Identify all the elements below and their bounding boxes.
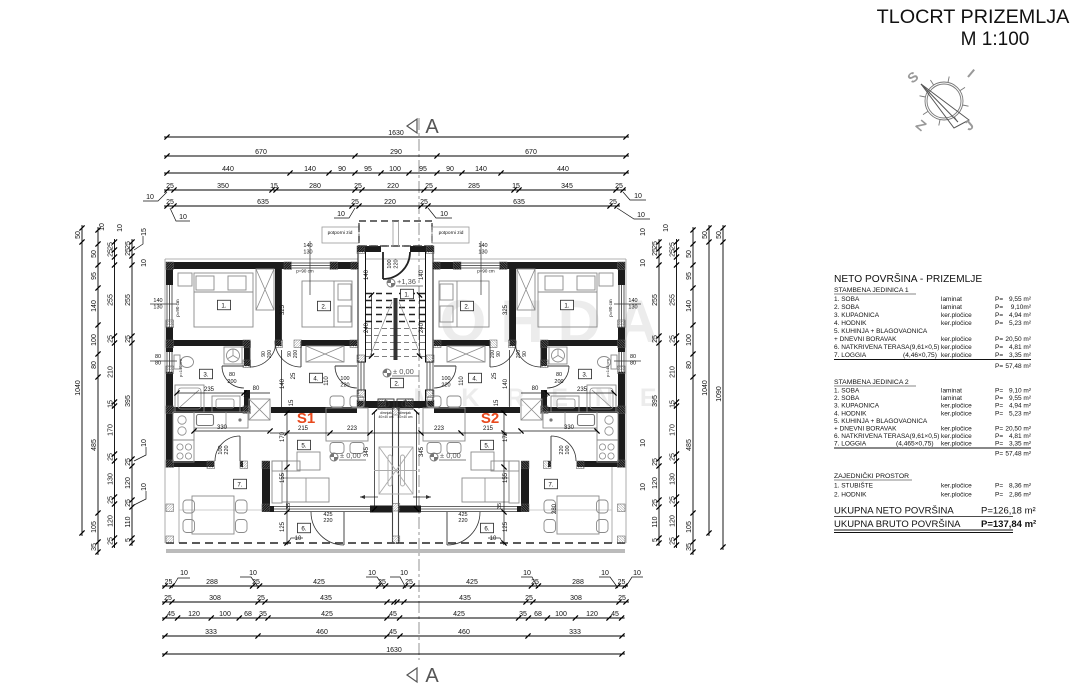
svg-text:S2: S2 xyxy=(481,410,499,427)
svg-text:ker.pločice: ker.pločice xyxy=(941,433,972,440)
svg-text:240: 240 xyxy=(364,322,370,333)
svg-text:280: 280 xyxy=(552,503,558,514)
room label 2. bedroom xyxy=(318,301,331,311)
svg-text:220: 220 xyxy=(458,518,467,524)
svg-text:25: 25 xyxy=(618,579,626,586)
svg-text:10: 10 xyxy=(141,483,148,491)
door slide arrow xyxy=(413,496,431,498)
svg-text:255: 255 xyxy=(107,294,114,306)
svg-text:ker.pločice: ker.pločice xyxy=(941,403,972,410)
terrace edge xyxy=(178,467,180,543)
svg-text:25: 25 xyxy=(107,242,114,250)
svg-text:170: 170 xyxy=(503,431,509,442)
svg-text:25: 25 xyxy=(669,249,676,257)
svg-text:210: 210 xyxy=(669,366,676,378)
wall junction hatches xyxy=(618,262,626,270)
svg-text:5: 5 xyxy=(125,538,132,542)
svg-text:50: 50 xyxy=(75,231,82,239)
svg-text:5.: 5. xyxy=(484,442,489,449)
svg-text:45: 45 xyxy=(389,611,397,618)
svg-text:25: 25 xyxy=(125,499,132,507)
svg-text:200: 200 xyxy=(227,379,236,385)
room label 7. terrace xyxy=(545,479,558,489)
terrace table + chairs xyxy=(557,496,599,534)
dimension chain left col C xyxy=(107,239,117,548)
svg-text:2. HODNIK: 2. HODNIK xyxy=(834,492,867,499)
svg-text:7.: 7. xyxy=(548,481,553,488)
svg-text:170: 170 xyxy=(669,424,676,436)
svg-text:25: 25 xyxy=(354,183,362,190)
terrace dashed edge bottom xyxy=(395,542,625,544)
svg-text:100: 100 xyxy=(91,334,98,346)
svg-text:100: 100 xyxy=(441,376,450,382)
svg-text:P=: P= xyxy=(995,433,1003,440)
nightstand xyxy=(178,273,192,286)
wall center party xyxy=(392,408,394,543)
svg-text:670: 670 xyxy=(525,149,537,156)
svg-text:1040: 1040 xyxy=(702,380,709,396)
svg-text:P=: P= xyxy=(995,363,1003,370)
svg-text:25: 25 xyxy=(609,199,617,206)
svg-text:210: 210 xyxy=(107,366,114,378)
svg-text:10: 10 xyxy=(400,570,408,577)
svg-text:100: 100 xyxy=(565,445,571,454)
svg-text:20,50 m²: 20,50 m² xyxy=(1005,426,1031,433)
svg-text:155: 155 xyxy=(280,472,286,483)
svg-text:395: 395 xyxy=(125,395,132,407)
dimension chain top 1630 xyxy=(164,130,629,140)
svg-text:25: 25 xyxy=(125,248,132,256)
svg-text:6. NATKRIVENA TERASA(9,61×0,5): 6. NATKRIVENA TERASA(9,61×0,5) xyxy=(834,344,939,351)
interior dim living vertical xyxy=(286,410,288,543)
svg-text:10: 10 xyxy=(337,211,345,218)
svg-text:90: 90 xyxy=(446,166,454,173)
room label 1. bedroom xyxy=(561,300,574,310)
interior dim bedroom2 325 xyxy=(509,269,511,340)
svg-text:25: 25 xyxy=(405,579,413,586)
svg-text:25: 25 xyxy=(652,248,659,256)
staircase center rail xyxy=(394,298,398,360)
svg-text:125: 125 xyxy=(503,521,509,532)
dimension chain bottom 1630 xyxy=(162,647,625,657)
svg-text:140: 140 xyxy=(478,243,487,249)
svg-text:4,81 m²: 4,81 m² xyxy=(1009,433,1032,440)
svg-text:325: 325 xyxy=(503,304,509,315)
svg-text:220: 220 xyxy=(224,445,230,454)
svg-text:1040: 1040 xyxy=(75,380,82,396)
dimension chain right col B' xyxy=(686,227,696,555)
svg-text:P=: P= xyxy=(995,312,1003,319)
svg-text:9,55 m²: 9,55 m² xyxy=(1009,296,1032,303)
svg-text:635: 635 xyxy=(257,199,269,206)
svg-text:15: 15 xyxy=(494,399,500,406)
svg-text:170: 170 xyxy=(107,424,114,436)
bed room 1 xyxy=(538,273,597,327)
svg-text:200: 200 xyxy=(490,350,496,359)
svg-text:3,35 m²: 3,35 m² xyxy=(1009,352,1032,359)
interior dim hall 140 xyxy=(281,350,283,407)
svg-text:10: 10 xyxy=(146,194,154,201)
svg-text:25: 25 xyxy=(669,496,676,504)
dimension chain bottom 45..45 xyxy=(162,611,625,621)
svg-text:25: 25 xyxy=(669,242,676,250)
svg-text:3. KUPAONICA: 3. KUPAONICA xyxy=(834,312,880,319)
svg-text:280: 280 xyxy=(309,183,321,190)
interior dim kitchen 330 xyxy=(194,430,270,432)
svg-text:15: 15 xyxy=(270,183,278,190)
dimension chain top 635/220/635 xyxy=(164,199,620,209)
svg-text:25: 25 xyxy=(125,458,132,466)
svg-text:P=: P= xyxy=(995,403,1003,410)
svg-text:4. HODNIK: 4. HODNIK xyxy=(834,410,867,417)
svg-text:25: 25 xyxy=(669,335,676,343)
svg-text:95: 95 xyxy=(91,272,98,280)
svg-text:10: 10 xyxy=(523,570,531,577)
svg-text:10: 10 xyxy=(640,259,647,267)
svg-text:P=: P= xyxy=(995,483,1003,490)
svg-text:220: 220 xyxy=(384,199,396,206)
svg-text:ker.pločice: ker.pločice xyxy=(941,441,972,448)
svg-text:10: 10 xyxy=(99,223,106,231)
svg-text:425: 425 xyxy=(321,611,333,618)
svg-text:± 0,00: ± 0,00 xyxy=(393,367,414,376)
wall porch front xyxy=(410,246,434,252)
svg-text:50: 50 xyxy=(91,250,98,258)
dimension chain top 440..440 xyxy=(164,166,629,176)
closet niche kitchen xyxy=(249,399,270,420)
svg-text:35: 35 xyxy=(259,611,267,618)
window left (bathroom) xyxy=(166,352,168,372)
svg-text:25: 25 xyxy=(107,453,114,461)
svg-text:1. SOBA: 1. SOBA xyxy=(834,296,860,303)
wall left xyxy=(166,262,173,285)
svg-text:UKUPNA BRUTO POVRŠINA: UKUPNA BRUTO POVRŠINA xyxy=(834,519,961,530)
washing machine xyxy=(549,347,567,364)
svg-text:90: 90 xyxy=(338,166,346,173)
svg-text:1090: 1090 xyxy=(716,386,723,402)
svg-text:1.: 1. xyxy=(404,291,409,298)
svg-text:68: 68 xyxy=(534,611,542,618)
dimension chain top 25..345 xyxy=(164,183,626,193)
svg-text:10: 10 xyxy=(490,536,497,542)
window top (bedroom 2) xyxy=(291,262,330,264)
wall terrace divider xyxy=(262,461,270,512)
wall porch front xyxy=(357,246,381,252)
svg-text:2.: 2. xyxy=(464,303,469,310)
svg-text:50: 50 xyxy=(702,231,709,239)
svg-text:5,23 m²: 5,23 m² xyxy=(1009,410,1032,417)
svg-text:3.: 3. xyxy=(203,371,208,378)
wall living bottom + glazing xyxy=(517,506,529,512)
svg-text:140: 140 xyxy=(303,243,312,249)
svg-text:10: 10 xyxy=(663,224,670,232)
svg-text:15: 15 xyxy=(107,400,114,408)
window left (bedroom 1) xyxy=(623,285,625,327)
wall bedroom divider xyxy=(275,269,282,340)
svg-text:10: 10 xyxy=(640,228,647,236)
kitchen counter left + hob xyxy=(597,412,618,440)
svg-text:285: 285 xyxy=(468,183,480,190)
svg-text:4,81 m²: 4,81 m² xyxy=(1009,344,1032,351)
svg-text:220: 220 xyxy=(559,445,565,454)
elevation marker +1,36 (porch) xyxy=(387,279,395,287)
svg-text:6.: 6. xyxy=(484,525,489,532)
door kitchen-terrace xyxy=(239,436,241,461)
coffee table xyxy=(471,452,494,470)
svg-text:130: 130 xyxy=(478,250,487,256)
sofa xyxy=(509,461,519,503)
svg-text:200: 200 xyxy=(554,379,563,385)
svg-text:25: 25 xyxy=(291,372,297,379)
svg-text:90: 90 xyxy=(496,351,502,357)
svg-text:10: 10 xyxy=(634,193,642,200)
svg-text:p=90 cm: p=90 cm xyxy=(175,299,180,317)
toilet xyxy=(611,355,617,369)
staircase treads xyxy=(395,293,425,295)
svg-text:95: 95 xyxy=(419,166,427,173)
dining table xyxy=(326,408,368,441)
dimension chain right col D' xyxy=(652,239,662,546)
interior dim living 345 xyxy=(416,412,418,509)
svg-text:130: 130 xyxy=(669,473,676,485)
svg-text:120: 120 xyxy=(188,611,200,618)
wall top xyxy=(166,262,291,269)
svg-text:15: 15 xyxy=(289,399,295,406)
compass rose xyxy=(920,77,969,126)
svg-text:330: 330 xyxy=(217,425,228,431)
svg-text:ZAJEDNIČKI PROSTOR: ZAJEDNIČKI PROSTOR xyxy=(834,471,909,480)
svg-text:15: 15 xyxy=(141,228,148,236)
wall bathroom right xyxy=(541,346,547,366)
svg-text:25: 25 xyxy=(652,335,659,343)
svg-text:25: 25 xyxy=(257,595,265,602)
outer envelope line xyxy=(164,259,166,543)
wall kitchen/terrace xyxy=(577,461,618,467)
svg-text:130: 130 xyxy=(303,250,312,256)
svg-text:425: 425 xyxy=(453,611,465,618)
dimension chain left 50/1040 xyxy=(75,225,85,536)
window stair (100/220) xyxy=(432,362,434,390)
svg-text:10: 10 xyxy=(249,570,257,577)
terrace edge xyxy=(611,467,613,543)
wall stair shaft xyxy=(426,246,434,362)
svg-text:10: 10 xyxy=(179,214,187,221)
svg-text:50: 50 xyxy=(686,250,693,258)
svg-text:2.: 2. xyxy=(321,303,326,310)
svg-text:80: 80 xyxy=(532,386,539,392)
dimension chain bottom 288/425 xyxy=(162,579,628,589)
svg-text:220: 220 xyxy=(441,383,450,389)
svg-text:50: 50 xyxy=(716,231,723,239)
wall living bottom + glazing xyxy=(262,506,274,512)
svg-text:235: 235 xyxy=(577,387,588,393)
svg-text:9,10m²: 9,10m² xyxy=(1011,304,1032,311)
sofa xyxy=(272,461,282,503)
svg-text:155: 155 xyxy=(503,472,509,483)
svg-text:110: 110 xyxy=(125,516,132,527)
shower xyxy=(587,385,616,412)
svg-text:2. SOBA: 2. SOBA xyxy=(834,395,860,402)
shower xyxy=(175,385,204,412)
svg-text:220: 220 xyxy=(387,183,399,190)
svg-text:20,50 m²: 20,50 m² xyxy=(1005,336,1031,343)
leader labels 10 bottom xyxy=(172,577,643,588)
dimension chain right 50/1040 xyxy=(702,225,712,536)
svg-text:1. STUBIŠTE: 1. STUBIŠTE xyxy=(834,481,874,490)
svg-text:15: 15 xyxy=(669,400,676,408)
interior dim living 345 xyxy=(374,412,376,509)
svg-text:9,55 m²: 9,55 m² xyxy=(1009,395,1032,402)
svg-text:200: 200 xyxy=(293,350,299,359)
svg-text:ker.pločice: ker.pločice xyxy=(941,320,972,327)
svg-text:95: 95 xyxy=(364,166,372,173)
svg-text:100: 100 xyxy=(340,376,349,382)
svg-text:140: 140 xyxy=(419,269,425,280)
svg-text:5. KUHINJA + BLAGOVAONICA: 5. KUHINJA + BLAGOVAONICA xyxy=(834,418,928,425)
terrace dashed edge bottom xyxy=(166,542,396,544)
svg-text:4,94 m²: 4,94 m² xyxy=(1009,403,1032,410)
staircase walk line xyxy=(399,302,421,356)
svg-text:345: 345 xyxy=(419,446,425,457)
svg-text:ker.pločice: ker.pločice xyxy=(941,483,972,490)
svg-text:P=: P= xyxy=(995,352,1003,359)
wall top xyxy=(500,262,625,269)
svg-text:1630: 1630 xyxy=(386,647,402,654)
svg-text:80: 80 xyxy=(556,372,562,378)
svg-text:100: 100 xyxy=(686,334,693,346)
svg-text:P=137,84 m²: P=137,84 m² xyxy=(981,519,1036,530)
kitchen counter left + hob xyxy=(173,412,194,440)
interior dim hall 140 xyxy=(509,350,511,407)
svg-text:10: 10 xyxy=(141,439,148,447)
svg-text:223: 223 xyxy=(434,426,445,432)
svg-text:P=: P= xyxy=(995,410,1003,417)
svg-text:140: 140 xyxy=(91,300,98,312)
door slide arrow xyxy=(360,496,378,498)
window left (bedroom 1) xyxy=(166,285,168,327)
svg-text:220: 220 xyxy=(340,383,349,389)
svg-text:425: 425 xyxy=(313,579,325,586)
room label 6. terrace xyxy=(298,523,311,533)
dimension chain top 670/290/670 xyxy=(164,149,629,159)
svg-text:25: 25 xyxy=(652,499,659,507)
svg-text:140: 140 xyxy=(475,166,487,173)
svg-text:330: 330 xyxy=(564,425,575,431)
svg-text:200: 200 xyxy=(267,350,273,359)
svg-text:80: 80 xyxy=(155,361,161,367)
svg-text:460: 460 xyxy=(316,629,328,636)
svg-text:25: 25 xyxy=(492,372,498,379)
door living-terrace xyxy=(446,512,448,545)
svg-text:ker.pločice: ker.pločice xyxy=(941,344,972,351)
svg-text:3,35 m²: 3,35 m² xyxy=(1009,441,1032,448)
room label 4. hall xyxy=(310,373,323,383)
svg-text:100: 100 xyxy=(219,611,231,618)
svg-text:25: 25 xyxy=(652,241,659,249)
svg-text:25: 25 xyxy=(425,183,433,190)
party wall hatches xyxy=(392,408,400,416)
svg-text:308: 308 xyxy=(209,595,221,602)
svg-text:25: 25 xyxy=(525,595,533,602)
svg-text:100: 100 xyxy=(555,611,567,618)
svg-text:333: 333 xyxy=(569,629,581,636)
kitchen counter xyxy=(194,412,248,428)
svg-text:M 1:100: M 1:100 xyxy=(961,29,1030,50)
door bedroom 1 xyxy=(540,341,542,367)
svg-text:130: 130 xyxy=(628,305,637,311)
svg-text:235: 235 xyxy=(204,387,215,393)
stair room label 1. xyxy=(401,289,414,299)
door bathroom xyxy=(222,365,244,367)
elevation marker ±0,00 (vestibule) xyxy=(383,369,391,377)
wardrobe room 1 xyxy=(256,269,274,310)
svg-text:P=: P= xyxy=(995,296,1003,303)
svg-text:10: 10 xyxy=(640,483,647,491)
svg-text:140: 140 xyxy=(503,378,509,389)
svg-text:255: 255 xyxy=(669,294,676,306)
window top (bedroom 2) xyxy=(461,262,500,264)
svg-text:4.: 4. xyxy=(313,375,318,382)
wall bedrooms bottom xyxy=(541,340,618,346)
svg-text:P=: P= xyxy=(995,344,1003,351)
interior dim kitchen 330 xyxy=(521,430,597,432)
door kitchen-terrace xyxy=(550,436,552,461)
svg-text:NETO POVRŠINA - PRIZEMLJE: NETO POVRŠINA - PRIZEMLJE xyxy=(834,272,982,285)
svg-text:TLOCRT PRIZEMLJA: TLOCRT PRIZEMLJA xyxy=(877,6,1071,28)
svg-text:2.: 2. xyxy=(394,380,399,387)
svg-text:57,48 m²: 57,48 m² xyxy=(1005,451,1031,458)
wall bathroom right xyxy=(244,346,250,366)
svg-text:288: 288 xyxy=(206,579,218,586)
svg-text:80: 80 xyxy=(229,372,235,378)
svg-text:255: 255 xyxy=(125,294,132,306)
svg-text:485: 485 xyxy=(91,439,98,451)
svg-text:ker.pločice: ker.pločice xyxy=(941,312,972,319)
svg-text:240: 240 xyxy=(419,322,425,333)
svg-text:5,23 m²: 5,23 m² xyxy=(1009,320,1032,327)
wall left xyxy=(618,262,625,285)
svg-text:25: 25 xyxy=(652,458,659,466)
svg-text:UKUPNA NETO POVRŠINA: UKUPNA NETO POVRŠINA xyxy=(834,506,954,517)
window left (bathroom) xyxy=(623,352,625,372)
svg-text:25: 25 xyxy=(166,199,174,206)
wall bedroom divider xyxy=(510,269,517,340)
svg-text:25: 25 xyxy=(107,537,114,545)
svg-text:10: 10 xyxy=(117,224,124,232)
elevation marker ±0,00 living S1 xyxy=(330,453,338,461)
wall terrace divider xyxy=(521,461,529,512)
door bedroom 1 xyxy=(249,341,251,367)
svg-text:P=: P= xyxy=(995,388,1003,395)
svg-text:p=90 cm: p=90 cm xyxy=(477,269,495,274)
svg-text:3.: 3. xyxy=(582,371,587,378)
coffee table xyxy=(297,452,320,470)
closet hall xyxy=(447,346,485,362)
svg-text:220: 220 xyxy=(323,518,332,524)
svg-text:ker.pločice: ker.pločice xyxy=(941,352,972,359)
svg-text:6.: 6. xyxy=(301,525,306,532)
svg-text:10: 10 xyxy=(180,570,188,577)
svg-text:440: 440 xyxy=(557,166,569,173)
svg-text:P=: P= xyxy=(995,441,1003,448)
svg-text:2,86 m²: 2,86 m² xyxy=(1009,492,1032,499)
svg-text:p=90 cm: p=90 cm xyxy=(608,299,613,317)
svg-text:25: 25 xyxy=(669,537,676,545)
room label 7. terrace xyxy=(234,479,247,489)
svg-text:STAMBENA JEDINICA 1: STAMBENA JEDINICA 1 xyxy=(834,287,909,294)
svg-text:485: 485 xyxy=(686,439,693,451)
wall stair shaft xyxy=(358,246,366,362)
